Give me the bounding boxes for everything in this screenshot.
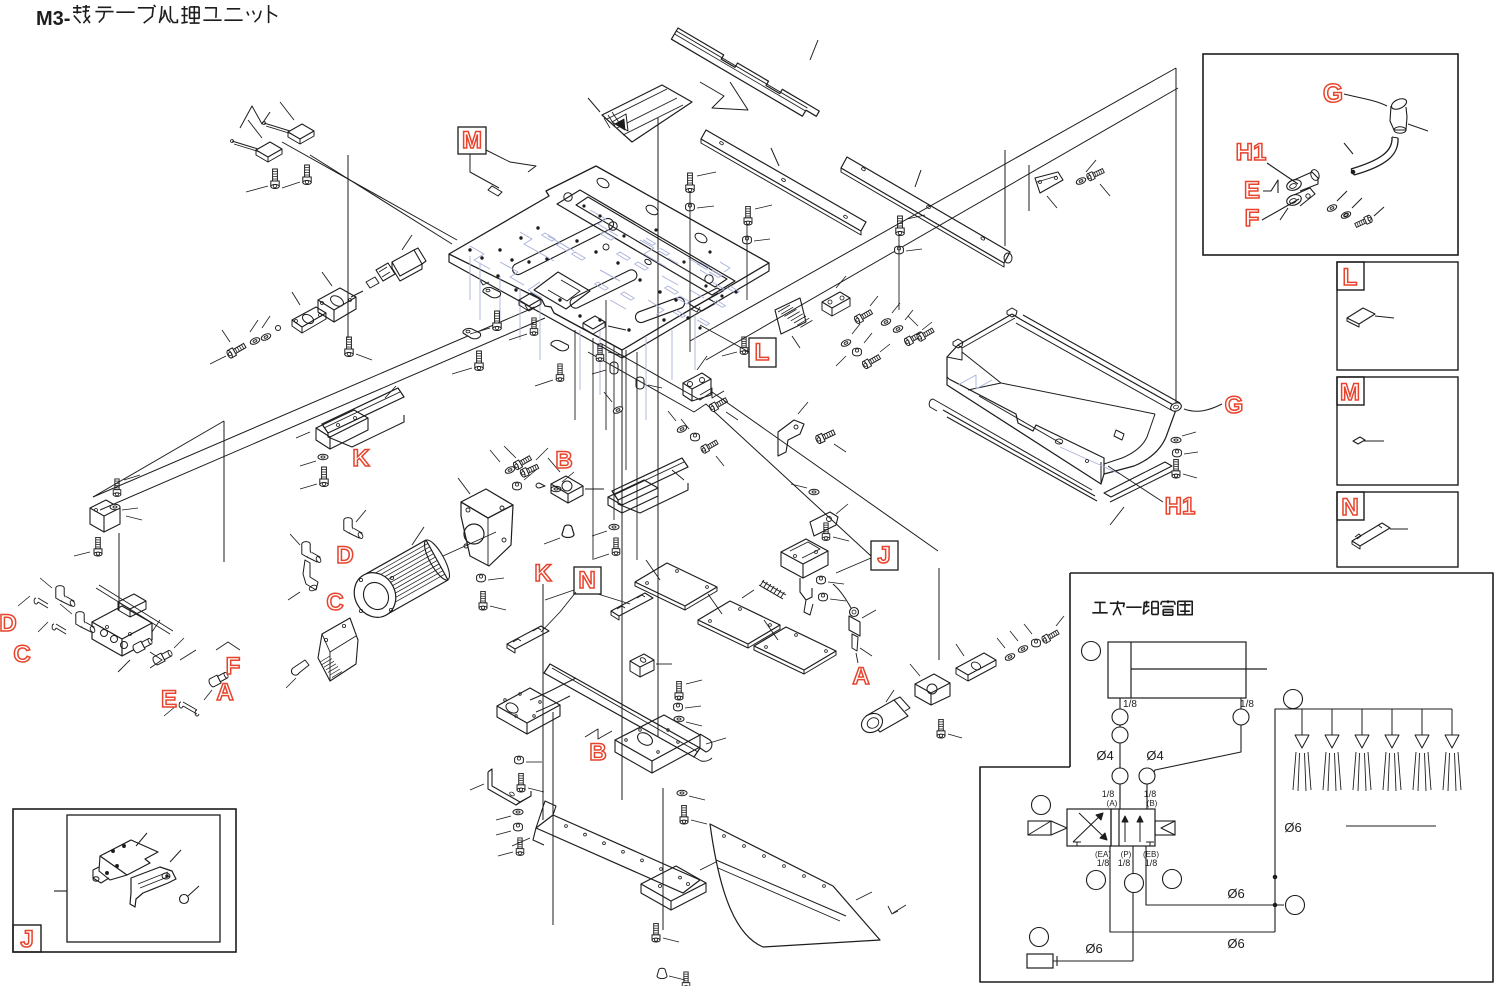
screw (inset) [1354,215,1373,229]
switch leader lines [282,142,457,240]
cylinder nose [366,277,379,288]
svg-text:Ø6: Ø6 [1284,820,1301,835]
fitting circle [1112,727,1128,743]
svg-text:C: C [13,641,30,668]
fin [374,557,436,592]
svg-text:1/8: 1/8 [1118,858,1131,868]
fold line [716,860,846,916]
clamp foot 2 [551,340,569,350]
oval flange right [956,653,996,675]
piston rod [351,291,363,297]
serration [328,666,338,672]
air cylinder (schematic) [1108,642,1246,698]
small comb plate [611,593,653,616]
svg-text:M3-: M3- [36,8,70,30]
small air cylinder body [392,250,422,276]
serration [332,672,342,678]
rack tooth [800,320,812,327]
K2 washer+screw below [609,524,619,530]
screw+washer left of B [512,454,532,470]
elbow fitting [76,612,96,634]
cylinder face [346,565,403,625]
svg-text:Ø6: Ø6 [1227,886,1244,901]
hidden slot (blue) [677,296,691,304]
svg-text:F: F [1245,205,1260,232]
svg-text:A: A [216,679,233,706]
spring [759,585,783,599]
zigzag break near switches [240,106,270,128]
leader [458,478,470,494]
screw right [896,216,904,236]
rivet hole [783,865,786,868]
hidden slot (blue) [601,232,615,240]
valve block right [915,674,950,693]
fitting circle [1233,709,1249,725]
angle profile [488,769,531,802]
svg-text:G: G [1323,78,1343,108]
comb strip leader [810,40,818,60]
screw under block [345,337,353,357]
comb strip plate [671,28,819,116]
leader [588,98,600,112]
big curved flap [710,824,880,947]
hazard triangle [612,114,628,131]
L box leader [700,325,749,352]
leader into box [54,890,67,892]
small screw mark [888,906,898,914]
plate small dots [469,249,472,252]
serration [326,664,336,670]
svg-text:1/8: 1/8 [1145,858,1158,868]
fin [375,560,437,595]
bracket foot [93,867,109,883]
rivet hole [823,885,826,888]
part M small clip [1353,437,1365,444]
hidden slot (blue) [643,238,656,245]
small block above right pad [630,654,654,667]
part E pin [179,702,199,716]
svg-text:N: N [578,567,595,594]
washer (inset) [1326,203,1337,212]
part L small plate [1347,308,1375,324]
nozzle 6 [1451,709,1453,735]
long band line to J (upper) [600,343,938,551]
rail bar2 [841,157,1010,263]
M part foot [488,186,502,196]
K1 carriage [316,410,368,437]
screws under lower plate [652,923,660,942]
svg-text:M: M [1340,379,1360,406]
hole [660,868,663,871]
fin [364,540,426,575]
leader [402,235,412,250]
bin front wall top edge with notch [949,379,1104,474]
valve arrow 3 [1122,816,1128,842]
fitting A [208,671,230,688]
leader H1 [1267,163,1298,184]
hidden slot (blue) [713,300,726,307]
bin left wall [947,345,958,379]
svg-text:K: K [352,445,370,472]
leader [248,120,262,138]
nozzle 4 [1391,709,1393,735]
pilot triangle [1051,821,1067,835]
svg-text:H1: H1 [1236,139,1267,166]
chute flap plate 3 [754,627,836,670]
right solenoid [1155,821,1175,835]
right port line [1240,698,1242,746]
nozzle 3 [1361,709,1363,735]
junction dot [1273,875,1277,879]
inset box M [1337,377,1458,485]
small comb plate [507,626,549,649]
tick [170,850,181,862]
part J bracket assembly (inset) [100,840,158,875]
sensor A with cable gland [850,608,859,617]
inset box N [1337,492,1458,567]
slot upper long [512,218,613,274]
spring coil [780,592,784,598]
hidden slot (blue) [557,243,571,251]
rivet hole [803,875,806,878]
nozzle 1 [1301,709,1303,735]
svg-text:D: D [336,542,353,569]
wedge line from manifold cluster [93,421,224,497]
hidden slot (blue) [665,286,679,294]
bin right wall [1104,407,1177,474]
svg-text:(A): (A) [1107,799,1118,808]
K2 carriage [608,480,658,505]
serration [330,669,340,675]
bracket screws right [519,463,539,478]
solenoid hardware [809,489,819,495]
K1 washer+screw below [318,454,328,460]
svg-text:Ø4: Ø4 [1096,748,1113,763]
leader [1364,440,1384,442]
bin mid clip [1114,430,1124,440]
washers under right pad [677,790,687,796]
rack tooth [784,309,796,316]
hole [641,859,644,862]
fitting circle [1112,768,1128,784]
bin right hardware [1171,437,1181,443]
fin [383,574,445,609]
svg-text:N: N [1341,494,1358,521]
flap leader lines [646,560,660,580]
EA line down then right [1110,846,1275,932]
vertical line x=939 J to parts [938,568,940,660]
micro switch 2 [256,142,282,157]
linear rail K1 [322,388,404,433]
big ring opening outer [557,190,735,295]
C small tube [52,624,66,634]
rack tooth [794,316,806,323]
square pocket inner [548,280,580,301]
small plate holes [564,193,572,201]
nozzle 2 [1331,709,1333,735]
svg-text:J: J [877,542,890,569]
svg-text:B: B [589,739,606,766]
svg-text:K: K [534,560,552,587]
rivet hole [723,835,726,838]
hinge plate [683,373,711,389]
E/F zigzag leaders [150,652,162,668]
balloon [1284,690,1303,709]
M box leader zigzag [486,150,536,172]
switch lever [264,123,290,131]
hole [584,833,587,836]
bin top lip rail [1020,319,1177,407]
rack tooth [788,312,800,319]
long needle through manifold [96,588,170,634]
piston rod [1131,668,1267,670]
slot bottom right with step [688,288,723,311]
pneumatic title エアー配管図 [1092,602,1107,612]
leader E zigzag [1263,180,1278,193]
tube end dot [1351,170,1355,174]
bin front wall bottom edge [947,377,1104,484]
svg-text:(B): (B) [1147,799,1158,808]
svg-text:1/8: 1/8 [1240,699,1254,710]
oval holes along ring [595,176,610,190]
hidden slot (blue) [617,252,631,260]
svg-text:F: F [226,653,241,680]
hidden drop lines below plate (blue) [579,330,581,390]
svg-text:J: J [20,926,33,953]
serration [324,661,334,667]
A leader [856,653,858,663]
svg-text:M: M [462,127,482,154]
blocked port T [1073,842,1081,846]
long screw above plate [686,173,694,193]
mounting block [318,288,356,310]
construction line to top-right inset (upper) [690,68,1176,341]
clamp plate right [822,292,850,308]
bar right hook end [700,734,712,752]
vertical witness line right [1175,68,1177,406]
small cylinder right [866,700,908,732]
fin [368,547,430,582]
construction line to top-right inset (lower) [706,88,1178,360]
leader [1375,316,1394,318]
leader [280,102,294,120]
vertical line x=543 K leader [542,584,544,820]
elbow fitting G [1390,97,1408,112]
long band line to J (lower) [588,352,871,556]
washers under left pad [515,756,524,764]
leader [1390,528,1408,530]
blocked port T [1146,842,1154,846]
bracket screw [113,479,121,497]
manifold top valve [118,594,146,609]
part J lever arm (inset) [130,867,176,907]
hinge screw [708,396,728,412]
small clamp blocks under plate [519,293,541,306]
reference line [1346,825,1436,827]
vertical line x=663 [662,788,664,930]
fitting circle [1139,768,1155,784]
big ring opening inner [576,197,727,287]
rack tooth [797,318,809,325]
floor front edge [979,396,1062,444]
lower bracket right pad [615,715,700,761]
hole [679,876,682,879]
svg-text:G: G [1225,392,1244,419]
svg-text:E: E [161,686,177,713]
switch lever [232,141,258,149]
square pocket outer [534,272,590,309]
solenoid valve 5/2 [1067,809,1111,846]
svg-text:B: B [555,447,572,474]
small plate part right [1035,172,1063,193]
hardware diagonal row [1004,652,1015,661]
screw under plate right [740,337,748,355]
nut+screw below bracket [477,574,486,582]
balloon [1082,642,1101,661]
solenoid body [781,539,828,564]
spring coil [767,584,771,590]
rack tooth [781,307,793,314]
tick [1047,196,1057,208]
P line down to source [1132,846,1134,961]
svg-text:1/8: 1/8 [1123,699,1137,710]
separate blade strip [1104,462,1172,497]
hole [565,825,568,828]
elbow fitting D [344,518,364,540]
N leaders [541,592,576,632]
fin [370,550,432,585]
tick [1280,208,1288,220]
balloon [1286,896,1305,915]
second hardware row [840,338,851,347]
fitting [152,649,174,666]
svg-text:H1: H1 [1165,493,1196,520]
screw below valve block [937,719,945,738]
screw axis line [689,191,691,352]
chute flap plate 2 [698,601,780,644]
small screw on fitting [1306,194,1310,198]
oval foot [483,287,501,297]
band break zigzag [700,388,724,398]
leader F [1262,199,1299,220]
leader [548,458,560,472]
grommet under B [562,525,574,537]
valve arrow 1 [1073,813,1103,842]
hidden slot (blue) [727,286,740,293]
vertical line x=348 (cylinder leader) [347,155,349,338]
tube H1 [1354,138,1398,175]
hole [603,842,606,845]
D small tube [34,598,48,608]
vertical line x=622 [621,352,623,800]
screw under plate [493,311,501,331]
hidden slot (blue) [673,310,686,317]
pin with circle (inset) [180,895,189,904]
leader tick [771,148,779,166]
pilot triangle right [1161,821,1175,835]
elbow fitting C [302,542,322,564]
small cap below plate [610,362,618,374]
hidden slot (blue) [657,248,670,255]
screw under plate [475,351,483,371]
axis line cylinder to bracket [443,532,496,556]
balloon [1030,928,1049,947]
inset box L [1337,262,1458,370]
fin [381,571,443,606]
left solenoid [1028,821,1051,835]
manifold block [92,606,152,639]
leader tick on tube [1344,143,1353,154]
vertical line manifold bracket [118,533,120,611]
air source box [1027,954,1053,968]
hidden slot (blue) [595,282,609,290]
oval flange [292,307,326,327]
screw left of bin [916,327,935,342]
leader [322,272,332,286]
leader [412,527,424,545]
svg-text:L: L [1343,264,1358,291]
plate right pad [641,866,706,901]
tick [1110,507,1124,525]
screw left of bent plate [291,660,309,675]
EB line down then right to balloon [1146,846,1284,905]
leader [385,386,396,398]
inset box top-right (parts G H1 E F detail) [1203,54,1458,255]
screw+washer right of small plate [1075,176,1086,185]
part N small comb plate [1352,523,1390,546]
balloon [1125,874,1144,893]
spring coil [760,580,764,586]
tick [585,488,604,490]
fitting [132,637,154,654]
angle bracket front [461,502,513,566]
chute tube end [929,399,940,411]
pin and washers chain [276,326,281,331]
serration [322,659,332,665]
boxed label M [458,127,486,154]
linear rail K2 [612,458,688,500]
svg-text:C: C [326,589,343,616]
boxed label J [871,541,898,570]
lower bracket left pad [497,688,560,723]
washer 2 (inset) [1340,210,1351,219]
rivet hole [763,855,766,858]
cylinder hex nut [376,263,395,281]
hidden slot (blue) [572,252,586,260]
left bend [533,828,544,845]
wedge line long [100,318,545,510]
vertical section line through assembly [657,118,659,737]
plate edge feet marks [480,280,700,312]
vertical line x=553 [552,712,554,925]
svg-text:D: D [0,610,17,637]
leader from G to elbow [1344,94,1387,106]
H1 leader [1108,466,1163,502]
inset box J bottom-left [13,809,236,952]
title kana/kanji [73,5,90,23]
svg-text:L: L [755,339,770,366]
hole [622,850,625,853]
bin front small hole [1086,460,1089,463]
block stub [536,483,545,488]
fin [379,567,441,602]
pneumatic diagram border [980,573,1493,982]
plate drop lines [574,330,576,420]
warning label plate [602,85,692,142]
hidden slot (blue) [635,262,649,270]
hose to valve B port [1148,746,1241,784]
hidden slot (blue) [542,233,556,241]
